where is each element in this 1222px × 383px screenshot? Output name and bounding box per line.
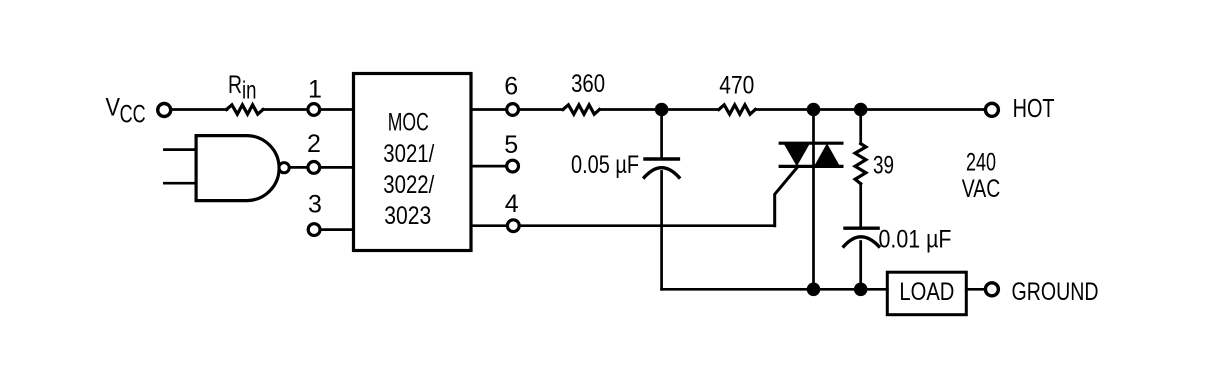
wire pin 6 to 360 resistor xyxy=(471,108,563,111)
resistor R2 39 zigzag xyxy=(855,144,866,184)
capacitor C2 wire to bottom rail xyxy=(859,242,862,290)
wire pin 5 stub xyxy=(471,165,512,168)
wire 360 to 470 xyxy=(600,108,719,111)
junction dot node A (360/470/C1) xyxy=(655,103,669,117)
LOAD box xyxy=(887,272,966,315)
svg-text:6: 6 xyxy=(504,72,518,100)
wire LOAD to GROUND xyxy=(966,288,984,291)
triac Q1 top bar MT2 xyxy=(780,142,842,145)
junction dot node D (rail/triac) xyxy=(807,283,821,297)
pin 5 circle xyxy=(507,160,519,172)
triac Q1 right triangle xyxy=(814,143,840,166)
svg-text:3023: 3023 xyxy=(384,202,431,230)
svg-text:0.01 µF: 0.01 µF xyxy=(879,225,952,253)
pin 4 circle xyxy=(507,220,519,232)
terminal circle HOT xyxy=(985,103,998,116)
triac Q1 bottom bar MT1 xyxy=(780,165,842,168)
svg-text:V: V xyxy=(106,94,121,122)
svg-text:4: 4 xyxy=(505,190,519,218)
svg-text:3: 3 xyxy=(308,191,322,219)
capacitor C1 top plate xyxy=(643,157,680,160)
terminal circle VCC xyxy=(158,104,171,117)
wire 470 to HOT xyxy=(755,108,984,111)
capacitor C2 0.01uF top plate xyxy=(843,226,880,229)
svg-text:in: in xyxy=(242,76,257,104)
wire pin 4 to triac gate xyxy=(471,224,775,227)
svg-text:3021/: 3021/ xyxy=(383,140,434,168)
junction dot node C (39/HOT) xyxy=(854,103,868,117)
svg-text:2: 2 xyxy=(307,130,321,158)
svg-text:HOT: HOT xyxy=(1013,93,1055,123)
triac Q1 left triangle xyxy=(784,143,811,166)
pin 6 circle xyxy=(507,104,519,116)
capacitor C1 0.05uF wire from junction xyxy=(660,110,663,158)
wire bubble to pin 2 and MOC box xyxy=(290,166,354,169)
capacitor C1 curved plate xyxy=(644,168,679,178)
resistor 470 xyxy=(719,105,756,114)
triac Q1 gate lead xyxy=(775,166,798,225)
pin 3 circle xyxy=(308,224,320,236)
NAND gate U1 body xyxy=(196,136,279,201)
terminal circle GROUND xyxy=(985,283,998,296)
svg-text:5: 5 xyxy=(504,131,518,159)
capacitor C2 curved plate xyxy=(844,237,879,247)
pin 1 circle xyxy=(308,104,320,116)
svg-text:240: 240 xyxy=(966,149,996,177)
svg-text:0.05 µF: 0.05 µF xyxy=(571,151,639,179)
svg-text:360: 360 xyxy=(571,70,605,98)
wire VCC to Rin xyxy=(171,108,227,111)
NAND output bubble xyxy=(279,163,289,173)
wire Rin to pin 1 and MOC box xyxy=(263,108,353,111)
wire pin 3 stub xyxy=(314,228,353,231)
resistor 360 xyxy=(563,105,600,114)
resistor R2 39 bottom wire xyxy=(859,184,862,227)
svg-text:GROUND: GROUND xyxy=(1012,278,1099,306)
bottom rail wire xyxy=(662,288,888,291)
pin 2 circle xyxy=(308,162,320,174)
svg-text:MOC: MOC xyxy=(388,109,429,137)
svg-text:470: 470 xyxy=(719,72,754,100)
svg-text:CC: CC xyxy=(120,100,146,128)
svg-text:1: 1 xyxy=(308,75,322,103)
svg-text:R: R xyxy=(228,71,242,99)
svg-text:LOAD: LOAD xyxy=(899,278,954,306)
junction dot node E (rail/C2) xyxy=(854,283,868,297)
resistor R2 39 top wire xyxy=(859,110,862,144)
svg-text:3022/: 3022/ xyxy=(383,171,434,199)
svg-text:VAC: VAC xyxy=(962,175,1001,203)
triac Q1 main vertical wire xyxy=(812,110,815,290)
NAND input wire top xyxy=(164,148,196,151)
junction dot node B (470/triac) xyxy=(807,103,821,117)
svg-text:39: 39 xyxy=(873,151,894,179)
capacitor C1 wire to bottom rail xyxy=(660,172,663,290)
resistor R_in xyxy=(227,105,264,114)
NAND input wire bottom xyxy=(164,182,196,185)
optocoupler U2 MOC box xyxy=(354,74,472,251)
